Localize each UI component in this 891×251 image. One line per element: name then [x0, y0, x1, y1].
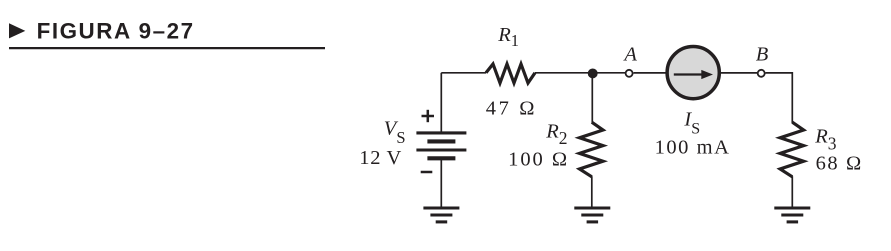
svg-text:A: A	[622, 44, 637, 66]
svg-text:100 Ω: 100 Ω	[508, 149, 567, 171]
svg-text:R2: R2	[545, 120, 567, 147]
svg-text:47 Ω: 47 Ω	[486, 98, 535, 120]
svg-text:VS: VS	[384, 117, 406, 147]
svg-text:R3: R3	[814, 126, 837, 154]
svg-text:12 V: 12 V	[359, 147, 401, 169]
svg-text:68 Ω: 68 Ω	[816, 153, 862, 175]
svg-text:R1: R1	[497, 24, 519, 50]
svg-text:IS: IS	[683, 109, 700, 138]
svg-text:B: B	[756, 44, 769, 66]
svg-text:100 mA: 100 mA	[655, 137, 729, 159]
svg-text:FIGURA 9–27: FIGURA 9–27	[37, 19, 195, 44]
